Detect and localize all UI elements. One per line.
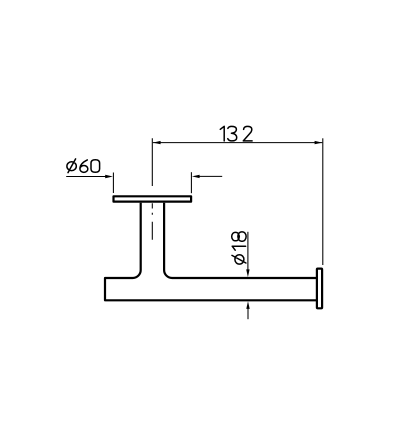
diameter 60 arrow left (points right) <box>105 175 113 178</box>
132 dimension line <box>153 142 322 144</box>
stem right profile with fillet into bar <box>164 203 317 278</box>
diameter 18 lower dimension line <box>247 307 249 319</box>
diameter 18 arrow down <box>246 269 249 277</box>
132 dimension arrow right <box>315 141 323 144</box>
end cap disc (right end of bar) <box>317 269 322 309</box>
132 dimension arrow left <box>153 141 161 144</box>
diameter 60 arrow right (points left) <box>192 175 200 178</box>
diameter 60 leader line right <box>196 175 222 177</box>
diameter 60 text <box>67 159 100 173</box>
diameter 18 text (rotated) <box>232 232 246 264</box>
diameter 60 leader line left <box>66 176 108 178</box>
diameter 18 arrow up <box>246 301 249 309</box>
centerline of stem (extension left of 132 dimension) <box>151 138 153 240</box>
stem left profile with fillet into bar <box>105 203 317 300</box>
diameter 60 extension line right <box>190 172 192 193</box>
132 dimension text <box>220 126 252 141</box>
extension line right of 132 dimension <box>322 138 324 265</box>
diameter 18 upper dimension line <box>247 232 249 271</box>
diameter 60 extension line left <box>112 173 114 194</box>
wall flange (diameter 60 plate, side view) <box>114 196 192 201</box>
